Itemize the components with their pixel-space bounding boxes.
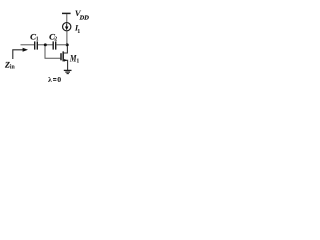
wire current source to drain junction — [66, 31, 68, 45]
capacitor C1 — [35, 41, 38, 49]
current source I1 — [63, 23, 71, 31]
svg-text:1: 1 — [77, 29, 80, 35]
wire C1 to C2 — [38, 44, 53, 46]
wire C2 to drain junction — [56, 44, 67, 46]
svg-text:0: 0 — [57, 75, 61, 84]
ground — [64, 70, 72, 73]
svg-text:2: 2 — [54, 36, 57, 42]
annotation lambda = 0 — [48, 75, 61, 84]
transistor M1 — [61, 46, 68, 70]
wire VDD bar to current source — [66, 14, 68, 23]
svg-text:in: in — [10, 65, 16, 71]
VDD supply bar — [62, 12, 71, 14]
node dot X — [44, 43, 47, 46]
wire node X down to gate — [45, 46, 60, 58]
Zin arrow — [13, 48, 28, 59]
capacitor C2 — [53, 41, 56, 49]
svg-text:DD: DD — [79, 14, 90, 21]
junction dot (drain node) — [66, 43, 69, 46]
svg-text:1: 1 — [36, 36, 39, 42]
wire input to C1 — [21, 44, 35, 46]
svg-text:λ: λ — [48, 75, 52, 84]
svg-text:1: 1 — [76, 59, 79, 65]
